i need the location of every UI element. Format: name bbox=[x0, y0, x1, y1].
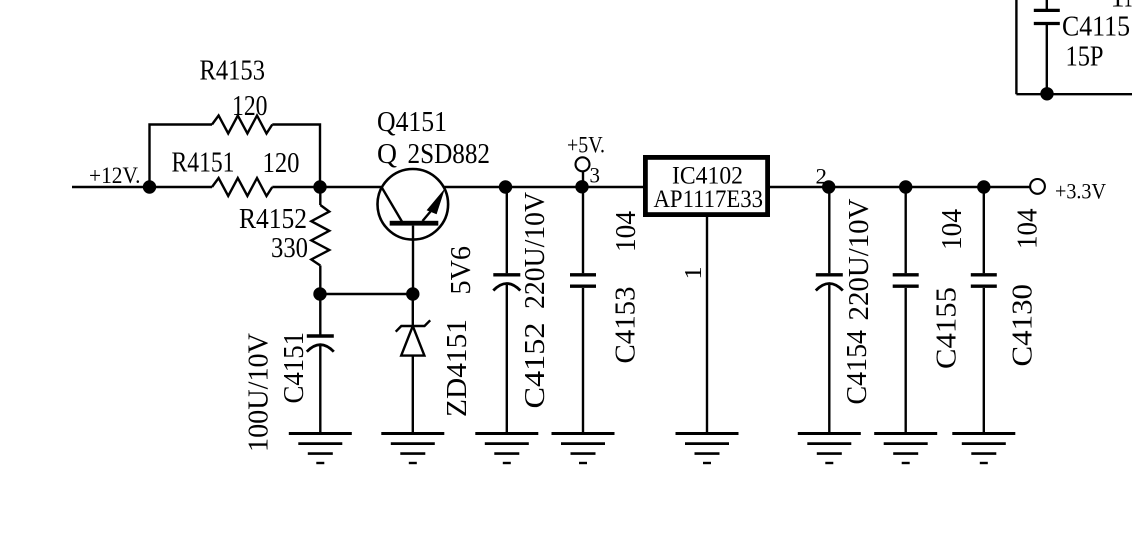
wire bbox=[272, 186, 381, 188]
ground bbox=[552, 432, 615, 435]
svg-text:104: 104 bbox=[610, 211, 642, 252]
capacitor C4130 bbox=[971, 273, 997, 276]
transistor Q1 circle bbox=[378, 169, 449, 240]
svg-text:+5V.: +5V. bbox=[567, 133, 605, 158]
transistor Q1 collector bbox=[382, 187, 403, 223]
wire bbox=[150, 125, 213, 188]
wire bbox=[506, 285, 508, 434]
wire bbox=[1016, 93, 1132, 95]
wire bbox=[412, 294, 414, 326]
svg-text:120: 120 bbox=[263, 148, 300, 179]
wire bbox=[444, 186, 645, 188]
svg-text:R4152: R4152 bbox=[239, 204, 307, 235]
wire bbox=[319, 266, 321, 295]
svg-text:C4155: C4155 bbox=[931, 287, 963, 369]
node J6 bbox=[577, 181, 588, 192]
transistor Q1 base bar bbox=[390, 221, 439, 226]
svg-text:1: 1 bbox=[681, 267, 707, 280]
svg-text:3: 3 bbox=[590, 163, 601, 188]
svg-text:220U/10V: 220U/10V bbox=[519, 192, 551, 309]
svg-text:C4154: C4154 bbox=[841, 330, 873, 405]
svg-text:ZD4151: ZD4151 bbox=[441, 319, 473, 417]
wire bbox=[905, 288, 907, 434]
ground bbox=[475, 432, 538, 435]
wire bbox=[582, 187, 584, 273]
svg-text:R4151: R4151 bbox=[172, 147, 235, 178]
wire bbox=[828, 285, 830, 434]
svg-text:Q: Q bbox=[377, 139, 397, 170]
wire bbox=[320, 293, 413, 295]
svg-text:104: 104 bbox=[1012, 208, 1044, 249]
terminal +3.3V circle bbox=[1030, 179, 1045, 194]
svg-text:C4152: C4152 bbox=[519, 323, 551, 409]
node J8 bbox=[900, 182, 911, 193]
resistor R4153 bbox=[212, 116, 272, 134]
svg-text:104: 104 bbox=[936, 209, 968, 250]
svg-text:+3.3V: +3.3V bbox=[1055, 179, 1106, 204]
svg-text:220U/10V: 220U/10V bbox=[843, 198, 875, 320]
capacitor C4152 bbox=[493, 273, 520, 276]
wire bbox=[272, 125, 320, 188]
ground bbox=[952, 432, 1015, 435]
node J7 bbox=[823, 182, 834, 193]
transistor Q1 base lead bbox=[412, 226, 414, 294]
terminal +5V circle bbox=[576, 157, 590, 171]
resistor R4151 bbox=[212, 178, 272, 196]
capacitor C4153 bbox=[570, 273, 596, 276]
wire bbox=[983, 288, 985, 434]
capacitor C4154 bbox=[816, 273, 843, 276]
svg-text:5V6: 5V6 bbox=[445, 246, 477, 295]
node J4 bbox=[407, 289, 418, 300]
wire pin1 bbox=[706, 217, 708, 434]
wire bbox=[319, 187, 321, 205]
zener ZD4151 bbox=[396, 320, 431, 331]
svg-text:1M: 1M bbox=[1111, 0, 1132, 14]
svg-text:2SD882: 2SD882 bbox=[408, 139, 491, 170]
svg-text:100U/10V: 100U/10V bbox=[243, 333, 275, 452]
wire bbox=[72, 186, 212, 188]
wire bbox=[412, 356, 414, 434]
svg-text:Q4151: Q4151 bbox=[377, 107, 447, 138]
svg-text:C4153: C4153 bbox=[610, 287, 642, 364]
node J2 bbox=[315, 182, 326, 193]
svg-text:C4115: C4115 bbox=[1062, 12, 1130, 43]
wire bbox=[1046, 25, 1048, 94]
svg-text:C4151: C4151 bbox=[278, 332, 310, 404]
ground bbox=[798, 432, 861, 435]
resistor R4152 bbox=[311, 205, 329, 266]
node J10 bbox=[1042, 88, 1053, 99]
wire bbox=[582, 172, 584, 189]
wire bbox=[506, 187, 508, 273]
node J9 bbox=[978, 182, 989, 193]
svg-text:15P: 15P bbox=[1066, 42, 1104, 73]
node J1 bbox=[144, 182, 155, 193]
ground bbox=[676, 432, 739, 435]
op-amp U1 IC4102 box bbox=[645, 157, 767, 214]
transistor Q1 emitter bbox=[423, 212, 431, 222]
wire bbox=[319, 294, 321, 335]
wire bbox=[768, 186, 1030, 188]
svg-text:120: 120 bbox=[232, 91, 268, 122]
ground bbox=[874, 432, 937, 435]
wire bbox=[582, 288, 584, 434]
svg-text:R4153: R4153 bbox=[200, 56, 266, 87]
capacitor C4151 bbox=[307, 334, 334, 337]
ground bbox=[381, 432, 444, 435]
wire bbox=[905, 187, 907, 273]
wire bbox=[1015, 0, 1017, 94]
svg-text:330: 330 bbox=[271, 233, 308, 264]
svg-text:AP1117E33: AP1117E33 bbox=[654, 186, 764, 213]
svg-text:+12V.: +12V. bbox=[89, 163, 141, 188]
node J5 bbox=[500, 182, 511, 193]
ground bbox=[289, 432, 352, 435]
capacitor C4155 bbox=[893, 273, 919, 276]
wire bbox=[983, 187, 985, 273]
svg-text:C4130: C4130 bbox=[1007, 284, 1039, 367]
capacitor C4115 bbox=[1034, 9, 1060, 12]
wire bbox=[319, 346, 321, 434]
wire bbox=[1046, 0, 1048, 9]
node J3 bbox=[315, 289, 326, 300]
wire bbox=[828, 187, 830, 273]
